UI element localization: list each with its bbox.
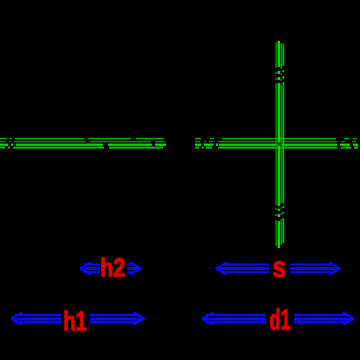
svg-text:d1: d1 [269,304,290,336]
svg-text:s: s [273,249,286,283]
svg-text:h1: h1 [63,306,87,337]
svg-text:h2: h2 [100,254,125,283]
